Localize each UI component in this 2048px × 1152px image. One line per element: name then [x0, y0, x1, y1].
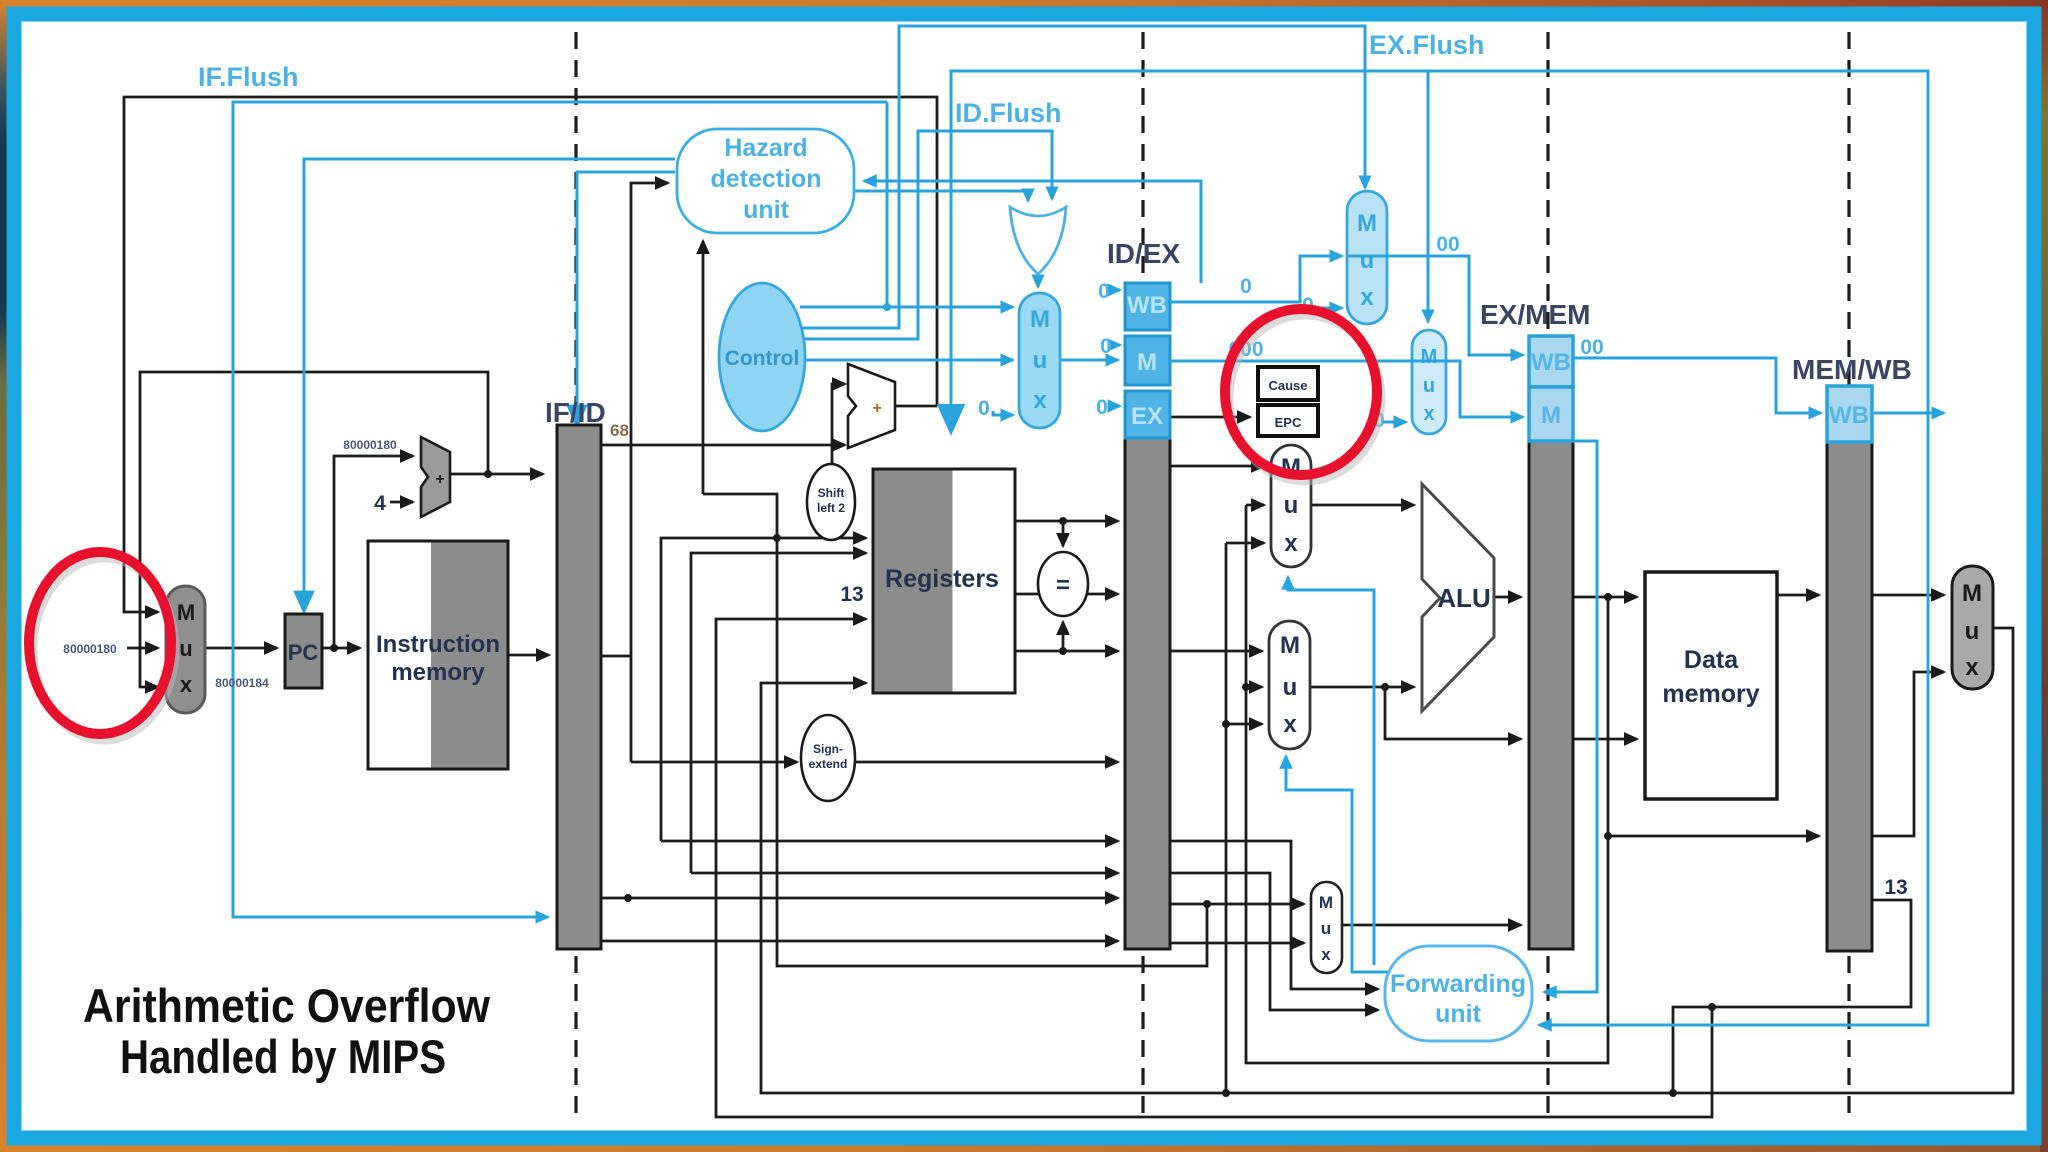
- destination register mux: [1311, 882, 1342, 973]
- wire EX/MEM forward branch to mux B: [1245, 686, 1248, 689]
- pipeline register ID/EX: [1125, 438, 1170, 949]
- svg-text:PC: PC: [288, 640, 319, 665]
- ALU: [1422, 484, 1494, 711]
- svg-text:00: 00: [1580, 336, 1603, 359]
- OR gate for flush: [1010, 207, 1066, 274]
- wire read2 up into comparator: [1062, 622, 1065, 651]
- junction dot forward B: [1242, 683, 1250, 691]
- svg-text:80000184: 80000184: [215, 676, 269, 690]
- svg-text:Forwarding: Forwarding: [1390, 970, 1526, 998]
- cause register: [1258, 367, 1318, 400]
- svg-text:unit: unit: [743, 196, 789, 224]
- wire PC+4 adder output junction: [450, 473, 543, 476]
- wire rs field to registers read1: [661, 538, 866, 841]
- wire IF.Flush long run: [233, 102, 887, 917]
- wire zero stub into M zero mux: [1383, 421, 1406, 424]
- svg-text:x: x: [1965, 654, 1979, 681]
- junction dot EX/MEM ALU result: [1604, 593, 1612, 601]
- junction dot read2: [1059, 647, 1067, 655]
- wire OR gate output into ID mux: [1037, 274, 1040, 287]
- wire branch-target loop top: [124, 97, 937, 612]
- junction reg-num split: [1708, 1003, 1716, 1011]
- svg-text:Sign-: Sign-: [813, 742, 843, 756]
- wire ID/EX WB to WB zero mux: [1170, 256, 1342, 302]
- wire registers read data 2 to ID/EX: [1015, 593, 1118, 596]
- svg-text:memory: memory: [1662, 680, 1759, 708]
- wire IF.Flush riser from control: [886, 102, 889, 307]
- write-back mux: [1952, 566, 1993, 689]
- junction dot PC output split: [330, 644, 338, 652]
- wire instruction memory output to IF/ID: [508, 654, 549, 657]
- wire sign-extend output to ID/EX: [855, 761, 1118, 764]
- svg-text:13: 13: [840, 583, 863, 606]
- svg-text:Control: Control: [725, 347, 800, 370]
- wire MEM/WB forward loop branch: [1225, 543, 1228, 1093]
- wire immediate field to sign-extend: [631, 761, 797, 764]
- wire EX/MEM store data to data memory: [1573, 738, 1637, 741]
- svg-text:extend: extend: [809, 757, 848, 771]
- wire data memory output to MEM/WB: [1777, 594, 1819, 597]
- branch target adder: [848, 364, 895, 448]
- wire forward mux A output to ALU: [1311, 504, 1414, 507]
- wire ID mux output to ID/EX M: [1060, 359, 1118, 362]
- control ellipse: [719, 283, 805, 431]
- wire registers read data 1 to ID/EX: [1015, 520, 1118, 523]
- wire registers lower output to ID/EX: [1015, 650, 1118, 653]
- svg-text:Handled by MIPS: Handled by MIPS: [120, 1030, 446, 1083]
- wire forward MEM/WB loop into mux B: [1226, 723, 1262, 726]
- wire zero stub into ID/EX EX: [1110, 405, 1120, 408]
- wire reg-num branch to registers write register: [716, 619, 1712, 1117]
- big arrow into registers: [949, 408, 953, 431]
- svg-text:u: u: [1033, 347, 1048, 374]
- ID/EX WB control box: [1125, 283, 1170, 330]
- svg-text:M: M: [177, 600, 195, 625]
- svg-text:left 2: left 2: [817, 501, 845, 515]
- junction dot store data: [1381, 683, 1389, 691]
- svg-text:Data: Data: [1684, 646, 1739, 674]
- wire zero stub into ID/EX M: [1113, 344, 1120, 347]
- outer colored frame: [0, 0, 2048, 8]
- svg-text:WB: WB: [1127, 292, 1167, 319]
- PC register: [285, 614, 322, 688]
- svg-text:Instruction: Instruction: [376, 631, 500, 658]
- wire shift-left-2 output into branch adder: [832, 384, 845, 464]
- wire EX/MEM ALU result bypass to MEM/WB: [1608, 597, 1819, 836]
- wire control to ID mux input: [800, 306, 1013, 309]
- svg-text:00: 00: [1436, 233, 1459, 256]
- EX/MEM M control box: [1529, 387, 1573, 441]
- svg-text:u: u: [179, 636, 192, 661]
- wire MEM/WB write register number loop: [1673, 900, 1911, 1093]
- svg-text:ID.Flush: ID.Flush: [955, 98, 1062, 128]
- wire store data into EX/MEM: [1385, 687, 1521, 739]
- svg-text:M: M: [1137, 349, 1157, 376]
- wire MEM/WB ALU result to write-back mux: [1872, 672, 1944, 836]
- svg-text:=: =: [1056, 572, 1070, 599]
- wire forward MEM/WB loop into mux A: [1226, 542, 1264, 545]
- svg-text:0: 0: [978, 397, 990, 420]
- stage divider IF/ID dashed line: [574, 32, 577, 1118]
- wire zero stub into ID mux: [993, 411, 1013, 415]
- wire hazard unit output to OR gate: [854, 191, 1028, 201]
- wire rs field down to ID/EX row1: [661, 840, 1118, 843]
- svg-text:+: +: [435, 471, 444, 488]
- PC mux: [166, 586, 205, 713]
- svg-text:0: 0: [1098, 280, 1110, 303]
- svg-text:ALU: ALU: [1437, 583, 1490, 613]
- red highlight circle right (cause and EPC): [1229, 315, 1381, 481]
- wire ID/EX memread into hazard unit: [864, 181, 1201, 283]
- EX/MEM WB control box: [1529, 336, 1573, 387]
- junction dot rs row: [624, 894, 632, 902]
- wire MEM/WB data output to write-back mux: [1872, 594, 1944, 597]
- svg-text:IF.Flush: IF.Flush: [198, 62, 299, 92]
- instruction memory: [368, 541, 508, 769]
- junction dot rt branch: [1203, 900, 1211, 908]
- svg-text:Registers: Registers: [885, 565, 999, 593]
- wire hazard unit IF/ID flush: [577, 172, 675, 425]
- EX.Flush M zero mux: [1412, 330, 1446, 434]
- wire MEM/WB WB output to RegWrite loop: [1874, 412, 1944, 415]
- stage divider EX/MEM dashed line: [1546, 32, 1549, 1118]
- data memory: [1645, 572, 1777, 799]
- EX.Flush WB zero mux: [1347, 191, 1387, 324]
- forward mux B (ALU lower input): [1269, 621, 1310, 749]
- registers block: [873, 469, 1015, 693]
- pipeline register EX/MEM: [1529, 441, 1573, 949]
- svg-text:u: u: [1423, 375, 1435, 397]
- wire IF/ID PC+4 to branch adder: [601, 444, 845, 447]
- wire read1 down into comparator: [1062, 521, 1065, 546]
- junction data loop crossing: [1669, 1089, 1677, 1097]
- wire PC to instruction memory: [322, 647, 360, 650]
- wire PC value up to adder: [334, 456, 413, 648]
- svg-text:u: u: [1283, 674, 1298, 701]
- pipeline register MEM/WB: [1827, 442, 1872, 951]
- svg-text:Cause: Cause: [1268, 378, 1307, 393]
- svg-text:Hazard: Hazard: [724, 134, 807, 162]
- svg-text:u: u: [1284, 492, 1299, 519]
- wire control to EX.Flush: [802, 26, 1365, 328]
- svg-text:u: u: [1360, 247, 1375, 274]
- wire hazard field elbow: [703, 494, 1207, 966]
- svg-text:EX.Flush: EX.Flush: [1369, 30, 1485, 60]
- wire EX/MEM rd to forwarding unit: [1544, 441, 1597, 992]
- wire zero stub into ID/EX WB: [1111, 289, 1120, 292]
- wire ID/EX read1 to forward mux A: [1170, 465, 1264, 468]
- shift left 2 ellipse: [807, 464, 855, 540]
- svg-text:0: 0: [1100, 335, 1112, 358]
- svg-text:u: u: [1321, 919, 1331, 938]
- svg-text:80000180: 80000180: [63, 642, 117, 656]
- wire rt field to registers read2: [691, 553, 866, 873]
- svg-text:M: M: [1357, 210, 1377, 237]
- svg-text:68: 68: [610, 421, 629, 440]
- wire ID/EX rt to destination mux: [1170, 903, 1304, 906]
- sign-extend ellipse: [801, 715, 855, 801]
- wire ID/EX rs to forwarding unit: [1170, 841, 1378, 989]
- wire EX/MEM ALU result to data memory: [1573, 596, 1637, 599]
- svg-text:Shift: Shift: [818, 486, 845, 500]
- wire constant 4 into adder: [390, 501, 413, 504]
- wire rt field down to ID/EX row2: [691, 872, 1118, 875]
- wire EX.Flush branch into M zero mux: [1427, 71, 1430, 322]
- wire ALU result into EX/MEM: [1494, 596, 1521, 599]
- junction dot read1: [1059, 517, 1067, 525]
- forward mux A (ALU upper input): [1271, 445, 1311, 567]
- PC+4 adder: [421, 437, 450, 517]
- MEM/WB WB control box: [1827, 386, 1872, 442]
- equality comparator: [1038, 552, 1088, 616]
- wire 80000180 stub into PC mux: [127, 647, 158, 650]
- wire ID/EX EX output to EPC: [1170, 416, 1250, 419]
- wire control branch signal to OR gate: [800, 131, 1052, 339]
- svg-text:0: 0: [1240, 275, 1252, 298]
- wire ID/EX M through M zero mux to EX/MEM M: [1170, 361, 1523, 417]
- svg-text:M: M: [1030, 306, 1050, 333]
- svg-text:x: x: [1033, 387, 1047, 414]
- svg-text:u: u: [1965, 618, 1980, 645]
- svg-text:13: 13: [1884, 876, 1907, 899]
- svg-text:80000180: 80000180: [343, 438, 397, 452]
- wire PC+4 loop to PC mux bottom input: [140, 372, 488, 687]
- wire forward mux B output to ALU: [1310, 686, 1414, 689]
- junction hazard elbow on read1 row: [773, 534, 781, 542]
- forwarding unit: [1385, 946, 1532, 1041]
- wire write-back mux output loop to registers write data: [761, 628, 2013, 1093]
- junction dot MEM/WB forward: [1222, 1089, 1230, 1097]
- wire ID/EX rt to forwarding unit: [1170, 873, 1378, 1010]
- svg-text:detection: detection: [710, 165, 821, 193]
- stage divider MEM/WB dashed line: [1847, 32, 1850, 1118]
- junction dot PC+4 split: [484, 470, 492, 478]
- wire ID.Flush long run: [951, 71, 1928, 1025]
- svg-text:x: x: [1321, 945, 1331, 964]
- svg-text:M: M: [1280, 632, 1300, 659]
- svg-text:M: M: [1541, 402, 1561, 429]
- svg-text:unit: unit: [1435, 1000, 1481, 1028]
- wire IF/ID field to hazard detection unit: [631, 183, 668, 762]
- wire instruction bus out of IF/ID: [601, 655, 631, 658]
- junction dot MEM/WB forward B: [1222, 720, 1230, 728]
- wire rt field to ID/EX row3: [601, 897, 1118, 900]
- svg-text:Arithmetic Overflow: Arithmetic Overflow: [83, 979, 490, 1032]
- svg-text:IF/ID: IF/ID: [545, 397, 606, 428]
- wire rd field to ID/EX row4: [601, 940, 1118, 943]
- svg-text:ID/EX: ID/EX: [1107, 238, 1180, 269]
- svg-text:EPC: EPC: [1275, 415, 1302, 430]
- svg-text:memory: memory: [391, 659, 485, 686]
- svg-text:WB: WB: [1531, 349, 1571, 376]
- svg-text:M: M: [1962, 580, 1982, 607]
- pipeline register IF/ID: [557, 425, 601, 949]
- wire forwarding unit to forward mux A: [1288, 577, 1374, 965]
- svg-text:x: x: [180, 672, 193, 697]
- wire hazard unit PCWrite to PC: [304, 159, 675, 611]
- svg-text:0: 0: [1096, 396, 1108, 419]
- svg-text:EX: EX: [1131, 403, 1163, 430]
- EPC register: [1258, 405, 1318, 436]
- wire destination mux output to EX/MEM: [1342, 924, 1521, 927]
- ID/EX M control box: [1125, 336, 1170, 385]
- wire EX/MEM forwarding loop: [1246, 505, 1608, 1063]
- red highlight circle left (PC mux 80000180): [33, 558, 175, 740]
- svg-text:WB: WB: [1829, 402, 1869, 429]
- wire ID/EX read2 to forward mux B: [1170, 650, 1262, 653]
- ID stage zero mux: [1019, 293, 1060, 428]
- wire zero stub into WB zero mux: [1318, 307, 1342, 310]
- svg-text:+: +: [872, 400, 881, 417]
- svg-text:x: x: [1423, 403, 1434, 425]
- wire forward EX/MEM loop into mux A: [1246, 504, 1264, 507]
- wire forward EX/MEM loop into mux B: [1246, 686, 1262, 689]
- wire PC mux output to PC: [205, 647, 277, 650]
- svg-text:x: x: [1284, 530, 1298, 557]
- ID/EX EX control box: [1125, 391, 1170, 438]
- svg-text:M: M: [1421, 346, 1438, 368]
- hazard detection unit: [677, 129, 854, 233]
- svg-text:EX/MEM: EX/MEM: [1480, 299, 1590, 330]
- svg-text:M: M: [1319, 893, 1333, 912]
- wire ID/EX rd to destination mux: [1170, 942, 1304, 945]
- wire field up to hazard detection unit bottom: [702, 241, 705, 494]
- svg-text:MEM/WB: MEM/WB: [1792, 354, 1912, 385]
- wire branch adder output to loop: [895, 405, 937, 408]
- wire control ALU op to ID mux: [800, 359, 1013, 362]
- wire WB zero mux output to EX/MEM WB: [1347, 256, 1523, 355]
- svg-text:4: 4: [374, 492, 386, 515]
- wire forwarding unit to forward mux B: [1286, 756, 1389, 972]
- wire EX/MEM WB to MEM/WB WB: [1573, 358, 1821, 413]
- junction dot control WB: [883, 303, 891, 311]
- svg-text:x: x: [1283, 711, 1297, 738]
- stage divider ID/EX dashed line: [1141, 32, 1144, 1118]
- svg-text:x: x: [1360, 284, 1374, 311]
- junction dot bypass: [1604, 832, 1612, 840]
